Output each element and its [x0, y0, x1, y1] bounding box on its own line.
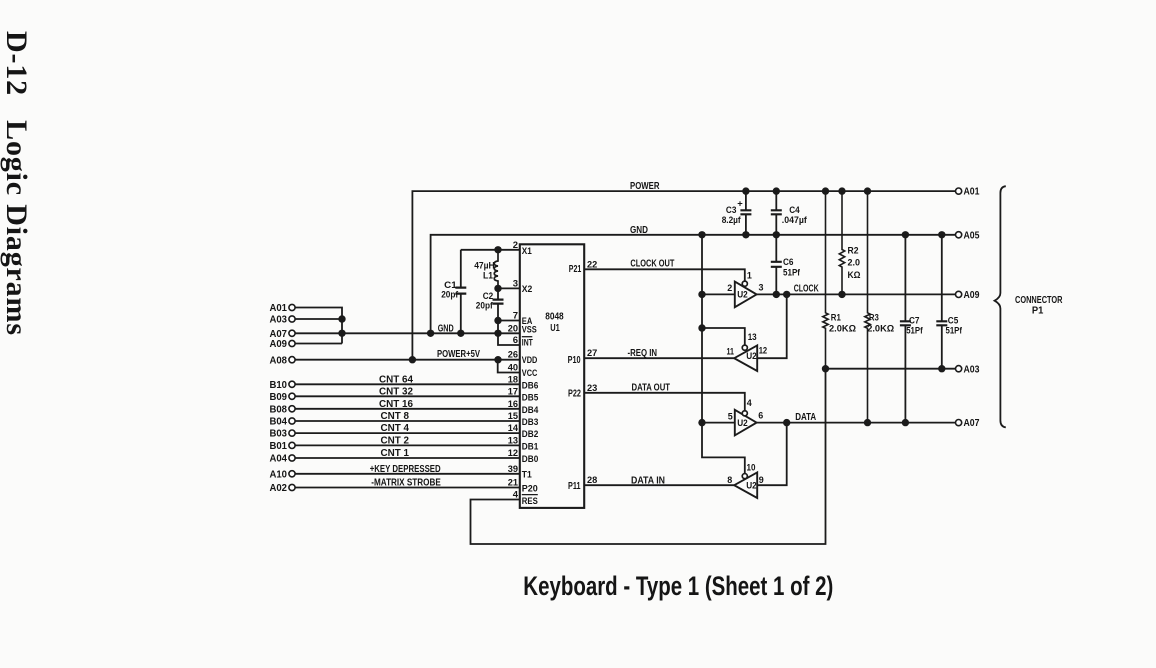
- wire INT pin 6 strap to VSS: [498, 333, 520, 345]
- svg-text:26: 26: [508, 350, 518, 361]
- wire X1 pin 2: [461, 246, 520, 253]
- capacitor C3 8.2µf (polarized): [722, 191, 752, 235]
- svg-text:DB2: DB2: [522, 429, 539, 440]
- svg-text:A09: A09: [964, 290, 980, 301]
- wire POWER rail: [412, 187, 955, 359]
- svg-text:CNT 16: CNT 16: [379, 399, 413, 410]
- svg-text:CLOCK OUT: CLOCK OUT: [630, 258, 674, 270]
- label CNT 1: [381, 448, 410, 459]
- svg-text:DB1: DB1: [522, 441, 539, 452]
- svg-text:P1: P1: [1032, 305, 1044, 316]
- svg-text:U2: U2: [746, 351, 757, 362]
- svg-text:39: 39: [508, 464, 518, 475]
- svg-text:CNT 32: CNT 32: [379, 386, 413, 397]
- svg-text:20pf: 20pf: [441, 290, 459, 301]
- svg-text:17: 17: [508, 386, 518, 397]
- inductor L1 47µH: [474, 250, 498, 289]
- svg-text:16: 16: [508, 399, 518, 410]
- label +KEY DEPRESSED: [370, 464, 441, 475]
- wire CLOCK net: [757, 291, 956, 298]
- capacitor C2 20pf: [476, 288, 504, 320]
- wire EA pin 7: [494, 317, 520, 334]
- svg-text:VCC: VCC: [522, 368, 538, 379]
- svg-text:8048: 8048: [545, 312, 564, 323]
- svg-text:8: 8: [727, 475, 732, 486]
- svg-text:20: 20: [508, 323, 518, 334]
- connector pin B04 (left): [270, 417, 296, 428]
- svg-text:P21: P21: [569, 264, 582, 275]
- wire DATA IN (P11 pin 28 to U2 pin 8): [584, 484, 734, 486]
- IC U1 8048 microcontroller: [508, 240, 598, 508]
- resistor R2 2.0 KΩ: [839, 191, 861, 294]
- svg-text:INT: INT: [522, 337, 533, 348]
- svg-text:VSS: VSS: [522, 325, 537, 336]
- svg-text:CNT 2: CNT 2: [381, 436, 410, 447]
- page heading "D-12 Logic Diagrams": [0, 31, 33, 335]
- wire row +KEY DEPRESSED to U1: [295, 473, 520, 475]
- label CNT 2: [381, 436, 410, 447]
- svg-text:18: 18: [508, 374, 518, 385]
- label -MATRIX STROBE: [371, 478, 441, 489]
- svg-text:A10: A10: [270, 469, 288, 480]
- capacitor C1 20pf: [441, 250, 466, 333]
- svg-text:6: 6: [758, 410, 763, 421]
- svg-text:GND: GND: [630, 224, 648, 236]
- svg-text:B04: B04: [270, 417, 288, 428]
- connector pin B09 (left): [270, 392, 296, 403]
- svg-text:DATA OUT: DATA OUT: [632, 381, 671, 393]
- svg-text:CLOCK: CLOCK: [794, 283, 819, 295]
- connector pin A07 (right): [956, 418, 980, 429]
- svg-text:21: 21: [508, 478, 519, 489]
- svg-text:A02: A02: [270, 483, 288, 494]
- svg-text:+KEY DEPRESSED: +KEY DEPRESSED: [370, 464, 441, 475]
- svg-text:DB4: DB4: [522, 405, 539, 416]
- svg-text:A01: A01: [964, 187, 980, 198]
- svg-text:GND: GND: [438, 323, 454, 334]
- svg-text:B08: B08: [270, 404, 288, 415]
- connector pin A01 (left): [270, 303, 296, 314]
- connector pin A01 (right): [956, 187, 980, 198]
- svg-text:2: 2: [727, 283, 732, 294]
- wire U2 req-driver enable (pin 13): [702, 328, 745, 345]
- svg-text:X2: X2: [522, 284, 533, 295]
- wire GND rail: [431, 231, 956, 333]
- svg-text:P10: P10: [568, 355, 581, 366]
- connector pin A02 (left): [270, 483, 296, 494]
- connector pin A09 (left): [270, 339, 296, 350]
- label CLOCK: [794, 283, 819, 295]
- connector pin A09 (right): [956, 290, 980, 301]
- capacitor C6 51Pf: [771, 235, 801, 295]
- connector pin A08 (left): [270, 355, 296, 366]
- svg-text:10: 10: [747, 462, 756, 473]
- label -REQ IN: [628, 347, 658, 359]
- wire row CNT 2 to U1: [295, 444, 520, 446]
- buffer U2 (data driver, pins 4/5/6): [728, 398, 764, 435]
- svg-text:51Pf: 51Pf: [946, 325, 963, 336]
- svg-text:1: 1: [747, 270, 753, 281]
- connector pin A03 (right): [956, 364, 980, 375]
- label POWER: [630, 180, 660, 192]
- svg-text:3: 3: [759, 282, 764, 293]
- label CNT 64: [379, 374, 413, 385]
- label CNT 4: [381, 423, 410, 434]
- connector pin A07 (left): [270, 329, 296, 340]
- svg-text:12: 12: [508, 448, 518, 459]
- connector pin A03 (left): [270, 315, 296, 326]
- svg-text:X1: X1: [522, 246, 533, 257]
- svg-text:CNT 64: CNT 64: [379, 374, 413, 385]
- svg-text:R1: R1: [831, 313, 842, 324]
- svg-text:U2: U2: [746, 481, 757, 492]
- connector pin B03 (left): [270, 429, 296, 440]
- svg-text:2.0: 2.0: [848, 257, 861, 268]
- wire GND tie vertical (buffer input/enable bias): [698, 235, 745, 474]
- svg-text:40: 40: [508, 363, 518, 374]
- svg-text:.047µf: .047µf: [782, 215, 808, 226]
- svg-text:A05: A05: [964, 230, 980, 241]
- svg-text:L1: L1: [483, 271, 494, 282]
- wire U2 clock-driver input: [702, 293, 735, 295]
- label CLOCK OUT: [630, 258, 674, 270]
- label DATA IN: [631, 474, 665, 486]
- wire CLOCK feedback to req-driver input (pin 12): [757, 294, 787, 358]
- wire row CNT 16 to U1: [295, 408, 520, 410]
- svg-text:RES: RES: [522, 496, 538, 507]
- svg-text:DB0: DB0: [522, 454, 539, 465]
- svg-text:KΩ: KΩ: [848, 270, 861, 281]
- svg-text:4: 4: [747, 398, 753, 409]
- connector pin B01 (left): [270, 441, 296, 452]
- connector pin A05 (right): [956, 230, 980, 241]
- svg-text:R3: R3: [869, 313, 879, 324]
- svg-text:-MATRIX STROBE: -MATRIX STROBE: [371, 478, 441, 489]
- wire row -MATRIX STROBE to U1: [295, 487, 520, 489]
- wire -REQ IN (U2 out to P10 pin 27): [584, 357, 734, 359]
- svg-text:CNT 8: CNT 8: [381, 411, 410, 422]
- svg-text:15: 15: [508, 411, 519, 422]
- svg-text:5: 5: [728, 411, 734, 422]
- wire A01/A03/A07/A09 tie bus: [295, 308, 345, 344]
- svg-text:A07: A07: [964, 418, 980, 429]
- wire X2 pin 3: [494, 285, 520, 292]
- svg-text:A03: A03: [964, 364, 980, 375]
- label CNT 32: [379, 386, 413, 397]
- wire row CNT 8 to U1: [295, 420, 520, 422]
- connector pin B10 (left): [270, 380, 296, 391]
- resistor R3 2.0KΩ (data pull-up): [865, 191, 895, 423]
- caption "Keyboard - Type 1 (Sheet 1 of 2)": [523, 571, 833, 601]
- svg-text:B03: B03: [270, 429, 288, 440]
- svg-text:DATA: DATA: [795, 411, 816, 423]
- svg-text:A01: A01: [270, 303, 288, 314]
- svg-text:POWER: POWER: [630, 180, 660, 192]
- connector P1 brace: [995, 186, 1063, 427]
- svg-text:R2: R2: [848, 246, 859, 257]
- svg-text:A08: A08: [270, 355, 288, 366]
- svg-text:P20: P20: [522, 483, 538, 494]
- svg-text:VDD: VDD: [522, 355, 538, 366]
- wire row CNT 64 to U1: [295, 383, 520, 385]
- svg-text:A03: A03: [270, 315, 288, 326]
- svg-text:U2: U2: [737, 290, 748, 301]
- svg-text:11: 11: [727, 347, 735, 358]
- wire row CNT 4 to U1: [295, 432, 520, 434]
- svg-text:2.0KΩ: 2.0KΩ: [829, 324, 856, 335]
- wire POWER+5V row (A08 to U1 VDD pin 26, strap to VCC pin 40): [295, 356, 520, 373]
- svg-text:B01: B01: [270, 441, 288, 452]
- svg-text:20pf: 20pf: [476, 301, 494, 312]
- svg-text:DB3: DB3: [522, 417, 539, 428]
- wire U2 data-driver input: [702, 422, 735, 424]
- wire row CNT 32 to U1: [295, 395, 520, 397]
- svg-text:POWER+5V: POWER+5V: [437, 349, 480, 360]
- capacitor C7 51Pf: [900, 235, 923, 423]
- capacitor C5 51Pf: [936, 235, 962, 369]
- svg-text:-REQ IN: -REQ IN: [628, 347, 658, 359]
- label DATA: [795, 411, 816, 423]
- svg-text:+: +: [737, 199, 743, 209]
- svg-text:C6: C6: [783, 257, 794, 268]
- label GND (rail): [630, 224, 648, 236]
- buffer U2 (req driver, pins 13/11/12): [727, 332, 768, 371]
- connector pin B08 (left): [270, 404, 296, 415]
- connector pin A04 (left): [270, 454, 296, 465]
- svg-text:8.2µf: 8.2µf: [722, 215, 742, 226]
- label GND (left): [438, 323, 454, 334]
- svg-text:51Pf: 51Pf: [906, 325, 923, 336]
- wire DATA feedback to data-receiver input (pin 9): [757, 423, 787, 486]
- buffer U2 (data receiver, pins 10/8/9): [727, 462, 764, 498]
- svg-text:Keyboard - Type 1 (Sheet 1 of: Keyboard - Type 1 (Sheet 1 of 2): [523, 571, 833, 601]
- svg-text:P22: P22: [568, 388, 581, 399]
- svg-text:DB6: DB6: [522, 380, 539, 391]
- svg-text:2.0KΩ: 2.0KΩ: [867, 324, 894, 335]
- svg-text:B09: B09: [270, 392, 288, 403]
- svg-text:DB5: DB5: [522, 392, 539, 403]
- svg-text:13: 13: [748, 332, 757, 343]
- svg-text:13: 13: [508, 435, 518, 446]
- wire CLOCK OUT (P21 pin 22 to U2 pin 1): [584, 269, 745, 281]
- label CNT 8: [381, 411, 410, 422]
- label CNT 16: [379, 399, 413, 410]
- svg-text:D-12 Logic Diagrams: D-12 Logic Diagrams: [0, 31, 33, 335]
- resistor R1 2.0KΩ (reset pull-up): [823, 191, 857, 369]
- svg-text:51Pf: 51Pf: [783, 268, 801, 279]
- svg-text:12: 12: [759, 346, 768, 357]
- wire A03 reset row: [826, 365, 956, 372]
- svg-text:B10: B10: [270, 380, 288, 391]
- svg-text:P11: P11: [568, 481, 581, 492]
- svg-text:DATA IN: DATA IN: [631, 474, 665, 486]
- wire GND row (A07 to U1 VSS pin 20): [295, 330, 520, 337]
- svg-text:T1: T1: [522, 469, 533, 480]
- svg-text:A09: A09: [270, 339, 288, 350]
- svg-text:U2: U2: [737, 418, 748, 429]
- label DATA OUT: [632, 381, 671, 393]
- wire row CNT 1 to U1: [295, 457, 520, 459]
- wire DATA net: [757, 419, 956, 426]
- svg-text:9: 9: [759, 475, 764, 486]
- connector pin A10 (left): [270, 469, 296, 480]
- label POWER+5V: [437, 349, 480, 360]
- svg-text:14: 14: [508, 423, 519, 434]
- capacitor C4 .047µf: [771, 191, 808, 235]
- svg-text:CNT 1: CNT 1: [381, 448, 410, 459]
- buffer U2 (clock driver, pins 1/2/3): [727, 270, 763, 307]
- wire reset net (R1/A03 to U1 RES pin 4): [471, 365, 830, 544]
- svg-text:A04: A04: [270, 454, 288, 465]
- wire DATA OUT (P22 pin 23 to U2 pin 4): [584, 393, 745, 411]
- svg-text:U1: U1: [550, 323, 560, 334]
- svg-text:CNT 4: CNT 4: [381, 423, 410, 434]
